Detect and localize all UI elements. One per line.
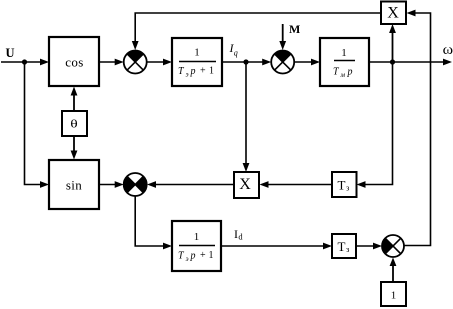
- wire T3 mid to X mid block: [260, 181, 333, 188]
- svg-text:U: U: [6, 46, 15, 60]
- svg-text:X: X: [387, 5, 399, 22]
- wire block2 output to omega with junction: [369, 59, 452, 66]
- wire right rail from multiplier 4 output up into X top block: [404, 10, 431, 246]
- node junction dot omega line: [390, 59, 395, 64]
- svg-text:X: X: [239, 176, 251, 193]
- svg-text:I: I: [234, 227, 238, 241]
- wire feedback from X top block to multiplier circle 1: [132, 13, 381, 50]
- block X mid: [234, 172, 259, 198]
- svg-text:p: p: [190, 66, 196, 77]
- wire sin output to multiplier circle 3: [99, 181, 124, 188]
- svg-text:M: M: [289, 22, 300, 36]
- node Id label: [234, 227, 243, 242]
- block X top: [381, 2, 406, 25]
- svg-text:sin: sin: [66, 177, 82, 192]
- svg-text:1: 1: [391, 290, 397, 302]
- wire multiplier 3 down and right to block 1/(Tep+1) lower: [135, 196, 172, 249]
- wire U junction down and right to sin block: [25, 62, 50, 188]
- block theta: [62, 111, 87, 136]
- wire block3 output to T3 bottom: [221, 243, 332, 250]
- svg-text:1: 1: [209, 66, 214, 77]
- multiplier circle 4 (left sector filled): [382, 235, 404, 257]
- multiplier circle 2 (top sector filled): [271, 51, 294, 74]
- block T3 mid: [332, 172, 357, 197]
- wire junction down and left to T3 mid block: [357, 62, 393, 188]
- svg-text:cos: cos: [65, 54, 84, 69]
- wire block1 output to multiplier 2 with junction: [222, 59, 271, 66]
- svg-text:T: T: [338, 177, 346, 192]
- block 1/(Tep+1) upper: [172, 38, 222, 86]
- svg-text:1: 1: [341, 47, 347, 59]
- wire theta to cos block (arrow up): [71, 87, 78, 112]
- svg-text:м: м: [340, 71, 346, 79]
- wire T3 bottom to multiplier circle 4: [356, 243, 382, 250]
- wire multiplier 2 to block 1/(Tmp): [294, 59, 320, 66]
- node junction dot Iq: [243, 59, 248, 64]
- wire U input to cos block: [1, 59, 49, 66]
- svg-text:θ: θ: [70, 118, 78, 131]
- block cos: [49, 37, 99, 86]
- wire junction up to X top block: [389, 24, 396, 62]
- node M input label: [289, 22, 300, 36]
- block T3 bottom: [332, 234, 356, 258]
- node Iq label: [229, 41, 238, 58]
- wire X mid to multiplier circle 3: [147, 181, 234, 188]
- wire multiplier 1 to block 1/(Tep+1): [147, 59, 172, 66]
- svg-text:1: 1: [194, 231, 200, 243]
- svg-text:q: q: [234, 49, 238, 58]
- svg-text:+: +: [200, 66, 206, 77]
- block sin: [49, 160, 99, 209]
- svg-text:p: p: [190, 251, 196, 262]
- multiplier circle 1 (top sector filled): [124, 51, 147, 74]
- wire M input down to multiplier 2: [279, 24, 286, 50]
- svg-text:1: 1: [209, 250, 214, 261]
- node junction dot on U line: [22, 59, 27, 64]
- svg-text:p: p: [347, 67, 353, 78]
- svg-text:T: T: [338, 239, 346, 254]
- node U input label: [6, 46, 15, 60]
- wire theta to sin block (arrow down): [71, 136, 78, 160]
- block constant 1: [381, 282, 406, 306]
- wire Iq junction down to X mid block: [243, 62, 250, 172]
- svg-text:э: э: [186, 255, 189, 263]
- block 1/(Tmp): [320, 38, 369, 86]
- block 1/(Tep+1) lower: [172, 221, 221, 271]
- svg-text:ω: ω: [443, 43, 453, 58]
- svg-text:+: +: [200, 250, 206, 261]
- svg-text:1: 1: [194, 47, 200, 59]
- svg-text:d: d: [238, 232, 243, 242]
- multiplier circle 3 (left and right sectors filled): [124, 173, 147, 196]
- node omega output label: [443, 43, 453, 58]
- svg-text:э: э: [186, 71, 189, 79]
- wire block 1 up to multiplier 4: [390, 258, 397, 283]
- wire cos output to multiplier circle 1: [99, 59, 124, 66]
